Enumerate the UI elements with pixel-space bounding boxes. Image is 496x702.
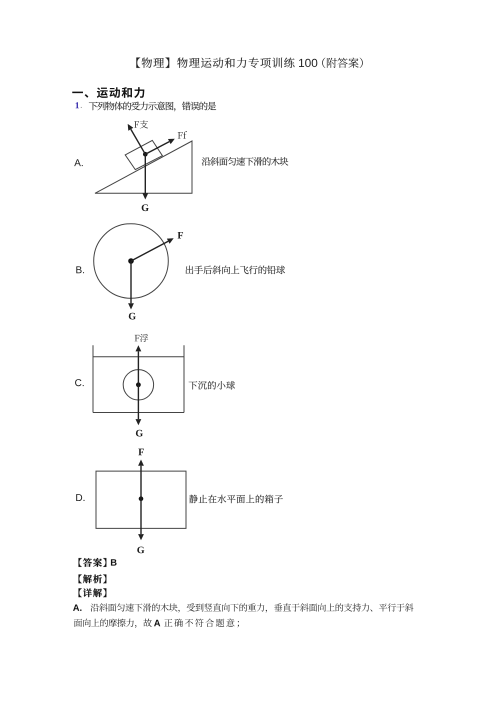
answer label 【答案】	[79, 558, 107, 567]
option label B.	[76, 266, 84, 273]
ball center dot (B)	[128, 258, 134, 264]
label F (D)	[138, 449, 143, 456]
title paren part （附答案）	[322, 58, 363, 68]
section heading 一、运动和力	[72, 87, 144, 98]
description C	[189, 381, 235, 390]
incline triangle	[95, 141, 192, 193]
detail line 1	[91, 603, 414, 612]
label G (B)	[129, 313, 136, 320]
title text CJK part	[136, 58, 294, 68]
label 【详解】	[79, 588, 107, 597]
label F浮	[135, 334, 149, 342]
label F (B)	[178, 232, 183, 239]
block center dot	[143, 152, 148, 157]
gravity arrow G (D)	[138, 499, 144, 541]
answer letter B	[111, 559, 117, 565]
question number period	[80, 106, 83, 109]
label G (A)	[142, 204, 149, 211]
label F支	[134, 120, 148, 128]
container right wall	[183, 345, 185, 412]
question number 1	[76, 102, 79, 108]
normal force arrow F支	[128, 124, 146, 154]
block on incline	[125, 140, 162, 169]
detail letter A bold	[154, 620, 160, 626]
water surface line	[93, 356, 184, 358]
title digits 100	[299, 59, 317, 67]
support arrow F (D)	[138, 460, 144, 499]
gravity arrow G (C)	[136, 385, 142, 426]
detail option A.	[73, 605, 81, 611]
option label A.	[74, 159, 83, 166]
label Ff	[178, 131, 187, 138]
force arrow F (B)	[131, 238, 174, 261]
box center dot (D)	[139, 496, 144, 501]
gravity arrow G (B)	[128, 261, 134, 310]
description A	[202, 157, 288, 166]
question text	[89, 102, 216, 112]
container left wall	[92, 345, 94, 412]
detail line 2a	[74, 619, 152, 628]
option label D.	[76, 494, 84, 501]
label G (C)	[136, 430, 143, 437]
description B	[186, 266, 285, 275]
ball center dot (C)	[136, 382, 141, 387]
ball circle (B)	[94, 224, 169, 299]
detail line 2b	[164, 619, 239, 628]
container bottom	[93, 412, 184, 414]
box rectangle (D)	[96, 471, 186, 528]
buoyancy arrow F浮	[136, 345, 142, 385]
label G (D)	[137, 547, 144, 554]
ball circle (C)	[123, 370, 153, 400]
description D	[189, 495, 283, 504]
option label C.	[75, 379, 84, 386]
label 【解析】	[79, 574, 107, 583]
gravity arrow G (A)	[142, 154, 148, 199]
friction force arrow Ff	[145, 139, 175, 155]
